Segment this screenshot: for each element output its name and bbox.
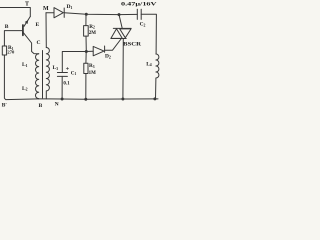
junction dot R2 top xyxy=(85,13,88,16)
svg-text:L4: L4 xyxy=(146,61,152,67)
wire base xyxy=(4,31,23,46)
svg-text:L2: L2 xyxy=(22,86,28,92)
svg-text:270: 270 xyxy=(7,50,15,55)
resistor R3 xyxy=(84,63,88,73)
triac BSCR up triangle xyxy=(111,29,122,39)
svg-text:T: T xyxy=(25,2,29,8)
svg-text:E: E xyxy=(36,22,40,28)
svg-text:C1: C1 xyxy=(71,70,77,76)
resistor R2 xyxy=(84,26,89,36)
wire D2 to BSCR gate xyxy=(105,39,121,50)
svg-text:R3: R3 xyxy=(89,63,95,69)
svg-text:R2: R2 xyxy=(89,24,95,30)
wire bottom rail xyxy=(39,98,158,100)
wire M to L3 xyxy=(45,13,47,48)
svg-text:B: B xyxy=(39,103,43,109)
wire midline to R3 xyxy=(85,52,87,64)
wire D1 to top rail xyxy=(64,13,119,15)
wire R3 to bottom rail xyxy=(85,74,87,100)
svg-text:B′: B′ xyxy=(2,103,8,109)
wire C1 to bottom rail xyxy=(61,76,63,99)
wire BSCR cathode to bottom rail xyxy=(122,39,124,100)
junction dot N xyxy=(61,98,64,101)
svg-text:0.47μ/16V: 0.47μ/16V xyxy=(121,1,157,7)
diode D1 cathode bar xyxy=(63,8,65,17)
svg-text:0.1: 0.1 xyxy=(63,81,70,86)
junction dot L4 bottom xyxy=(153,97,156,100)
svg-text:C: C xyxy=(37,40,41,46)
diode D2 xyxy=(93,46,104,55)
svg-text:BSCR: BSCR xyxy=(123,42,141,48)
transistor Q1 bar xyxy=(22,25,24,35)
svg-text:D1: D1 xyxy=(67,4,73,10)
triac BSCR top bar xyxy=(113,27,131,29)
inductor L1 L2 primary winding xyxy=(36,54,39,99)
svg-text:+: + xyxy=(66,66,70,73)
wire top-left T rail xyxy=(0,8,30,17)
wire M to D1 xyxy=(46,12,54,14)
triac BSCR bottom bar xyxy=(111,38,126,40)
wire C2 to right rail xyxy=(141,14,156,54)
diode D1 xyxy=(54,8,63,18)
inductor L3 secondary winding xyxy=(46,48,49,99)
svg-text:B: B xyxy=(5,24,9,30)
wire midline C1 to junction xyxy=(62,51,93,72)
svg-text:L3: L3 xyxy=(53,65,59,71)
transistor Q1 collector wire xyxy=(24,33,39,54)
svg-text:L1: L1 xyxy=(22,62,28,68)
svg-text:C2: C2 xyxy=(140,22,146,28)
wire top rail to R2 xyxy=(85,14,87,25)
svg-text:N: N xyxy=(55,102,59,108)
transistor Q1 emitter wire xyxy=(24,17,30,27)
junction dot C2 left xyxy=(118,13,121,16)
svg-text:M: M xyxy=(43,6,49,12)
wire R2 to midline xyxy=(85,36,87,51)
svg-text:1M: 1M xyxy=(89,71,97,76)
wire top rail to C2 xyxy=(119,13,137,15)
capacitor C1 bottom plate xyxy=(57,75,67,77)
capacitor C2 right plate xyxy=(140,9,142,19)
transformer core xyxy=(42,51,44,99)
transistor Q1 emitter arrow xyxy=(25,20,29,24)
svg-text:2M: 2M xyxy=(89,31,97,36)
diode D2 cathode bar xyxy=(104,46,106,52)
capacitor C1 top plate xyxy=(57,72,67,74)
capacitor C2 left plate xyxy=(136,9,138,19)
svg-text:D2: D2 xyxy=(105,54,111,60)
junction dot midline xyxy=(85,50,88,53)
inductor L4 xyxy=(156,54,159,99)
triac BSCR down triangle xyxy=(120,29,131,38)
junction dot BSCR bottom xyxy=(121,98,124,101)
resistor R1 xyxy=(2,46,6,55)
junction dot R3 bottom xyxy=(84,98,87,101)
wire BSCR anode lead xyxy=(119,15,122,29)
wire R1 to bottom xyxy=(4,55,38,100)
